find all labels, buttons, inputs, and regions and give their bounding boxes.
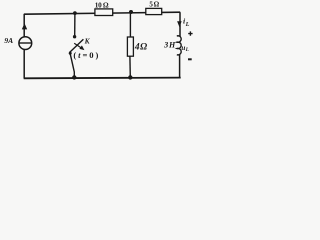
- wire right branch: [179, 12, 181, 36]
- background: [0, 0, 198, 89]
- node junction dot (R3 bottom): [128, 75, 132, 79]
- current direction arrow of source: [22, 23, 27, 29]
- resistor R3 4ohm (vertical box): [127, 37, 133, 56]
- switch K closing arrow: [74, 43, 81, 48]
- svg-text:5 Ω: 5 Ω: [149, 1, 159, 9]
- resistor R1 10ohm (top box): [95, 9, 113, 16]
- wire switch branch lower: [70, 54, 74, 77]
- node junction dot (switch top): [73, 11, 77, 15]
- svg-text:4Ω: 4Ω: [134, 42, 148, 52]
- node junction dot (switch bottom): [72, 75, 76, 79]
- wire R3 branch upper: [129, 12, 131, 37]
- svg-text:(t=0): (t=0): [73, 50, 100, 60]
- polarity minus: [188, 58, 192, 60]
- svg-text:10 Ω: 10 Ω: [95, 2, 109, 10]
- svg-text:9A: 9A: [4, 36, 13, 45]
- wire switch branch upper: [74, 13, 76, 35]
- switch K blade: [70, 39, 84, 52]
- resistor R2 5ohm (top box): [146, 8, 162, 14]
- node junction dot (top, between R1 and R2): [129, 10, 133, 14]
- wire R3 branch lower: [129, 56, 131, 77]
- wire top rail: [24, 12, 180, 14]
- inductor L1 3H coil: [177, 36, 181, 55]
- polarity plus: [188, 31, 192, 35]
- wire bottom rail: [24, 77, 181, 80]
- switch K upper contact: [73, 35, 76, 38]
- svg-text:3H: 3H: [163, 41, 176, 50]
- switch K lower contact: [69, 52, 72, 55]
- current source IS 9A (circle with horizontal bar): [19, 37, 32, 50]
- wire left branch: [23, 14, 25, 79]
- current arrow iL on right branch: [177, 21, 182, 27]
